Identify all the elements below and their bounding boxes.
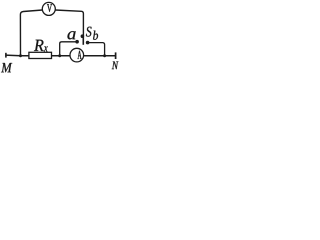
wire: bottom rail M to N	[5, 54, 115, 57]
ammeter U2 circle	[70, 48, 84, 62]
voltmeter label V	[47, 4, 52, 12]
switch S lever blade	[82, 37, 84, 45]
label Rx	[34, 40, 44, 51]
background	[0, 0, 119, 77]
resistor Rx box	[29, 52, 52, 58]
label N	[112, 62, 119, 70]
ammeter label A	[78, 51, 82, 59]
label Rx subscript x	[44, 46, 48, 51]
wire: top-right run from voltmeter and right riser down to switch pivot (rounded corner)	[55, 10, 83, 36]
label M	[1, 63, 12, 72]
wire: left riser and top-left run to voltmeter (rounded corner)	[20, 10, 42, 56]
node a contact dot	[75, 40, 79, 44]
wire: b-branch horizontal and riser down to rail (rounded corner)	[89, 43, 105, 57]
label a	[68, 31, 76, 39]
junction dot a-branch	[58, 54, 61, 57]
node b contact dot	[86, 41, 90, 45]
junction dot left riser	[19, 54, 22, 57]
terminal tick N	[115, 52, 117, 59]
junction dot b-branch	[103, 54, 106, 57]
switch S pivot dot	[81, 34, 85, 38]
switch label S	[86, 27, 92, 37]
voltmeter U1 circle	[42, 2, 55, 15]
terminal tick M	[5, 53, 7, 58]
label b	[93, 31, 98, 40]
wire: a-branch riser and horizontal to contact a (rounded corner)	[60, 42, 76, 57]
